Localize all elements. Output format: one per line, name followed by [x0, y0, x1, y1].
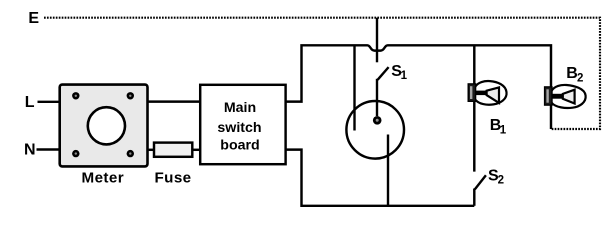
wire switched live from earth line through hop to S1	[376, 18, 378, 63]
switch S2 blade	[475, 175, 486, 189]
wire B1 branch lower (S2 to bottom line)	[473, 189, 475, 206]
ceiling rose circle	[346, 101, 404, 159]
svg-text:1: 1	[401, 70, 408, 82]
svg-text:switch: switch	[217, 120, 261, 136]
main switch board label	[217, 100, 261, 154]
wire fuse to main switch board	[192, 149, 200, 151]
svg-text:Meter: Meter	[82, 169, 125, 186]
svg-text:board: board	[220, 138, 259, 154]
wire neutral: board stub, drop, bottom line	[286, 150, 475, 206]
svg-text:E: E	[28, 10, 39, 27]
svg-text:Main: Main	[224, 100, 256, 116]
lamp B1 envelope	[475, 81, 507, 105]
wire rose neutral return (from rose to bottom line)	[387, 135, 389, 206]
svg-text:2: 2	[577, 72, 583, 84]
wire S1 to rose terminal	[376, 79, 378, 116]
svg-text:2: 2	[498, 175, 504, 187]
main switch board body	[200, 85, 285, 164]
meter dial circle	[88, 107, 125, 144]
meter M body	[60, 85, 148, 167]
svg-text:N: N	[24, 142, 36, 159]
meter screw bottom-left	[72, 150, 79, 157]
lamp B2 filament cone	[552, 94, 563, 99]
meter screw top-right	[127, 92, 134, 99]
rose centre terminal	[373, 116, 382, 125]
meter screw top-left	[72, 92, 79, 99]
wire live: board stub, riser, top line with hop, B2 drop	[286, 45, 551, 129]
lamp B2 envelope	[551, 85, 585, 108]
lamp B1 base	[468, 84, 475, 101]
svg-text:Fuse: Fuse	[154, 169, 191, 186]
wire meter to fuse (neutral)	[148, 149, 155, 151]
lamp B1 filament cone	[475, 91, 487, 96]
switch S1 blade	[378, 67, 389, 80]
wire N lead	[37, 148, 61, 150]
wire meter to main switch board (live)	[148, 100, 201, 102]
wire L lead	[38, 101, 61, 103]
earth wire E (dotted)	[44, 18, 600, 129]
meter screw bottom-right	[127, 150, 134, 157]
svg-text:L: L	[25, 94, 35, 111]
fuse F body	[154, 143, 192, 157]
wire B1 branch upper (top line to S2)	[473, 45, 475, 171]
lamp B2 base	[545, 87, 552, 105]
svg-text:1: 1	[500, 124, 507, 136]
wire rose live feed (from top line into rose)	[353, 45, 355, 130]
